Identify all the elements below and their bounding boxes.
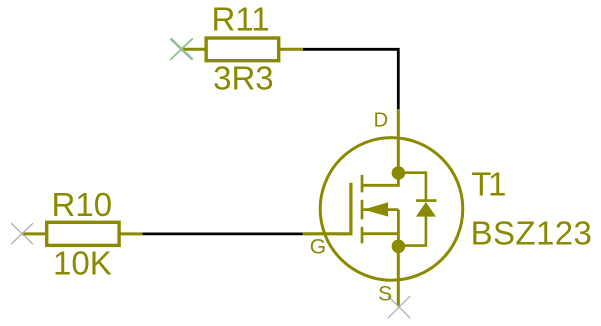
- svg-text:T1: T1: [471, 166, 505, 203]
- resistor R10: [22, 222, 143, 245]
- T1 bulk arrow: [363, 208, 398, 211]
- wire R10 to T1 gate: [143, 232, 303, 235]
- unconnected pin marker R10 pin 1: [11, 223, 33, 244]
- unconnected pin marker T1 source: [388, 296, 411, 319]
- T1 channel segments: [361, 175, 364, 243]
- svg-text:10K: 10K: [53, 245, 112, 282]
- body diode of T1: [398, 173, 436, 246]
- wire R11 to T1 drain: [303, 49, 398, 109]
- svg-text:R11: R11: [212, 1, 270, 38]
- junction dot source: [392, 240, 406, 254]
- svg-text:D: D: [374, 109, 388, 131]
- T1 bulk to source line: [397, 210, 400, 247]
- transistor T1 body circle: [320, 138, 463, 281]
- svg-text:S: S: [378, 283, 392, 306]
- T1 drain internal lead: [362, 173, 398, 185]
- junction dot drain: [392, 166, 406, 180]
- unconnected pin marker R11 pin 1: [170, 38, 193, 60]
- svg-text:BSZ123: BSZ123: [471, 215, 593, 252]
- T1 source internal lead: [362, 232, 398, 235]
- svg-text:3R3: 3R3: [213, 60, 274, 97]
- resistor R11: [182, 38, 303, 61]
- svg-text:G: G: [310, 235, 326, 258]
- T1 drain pin lead: [397, 109, 400, 173]
- T1 gate pin lead: [303, 183, 351, 234]
- svg-text:R10: R10: [52, 186, 113, 223]
- T1 source pin lead: [397, 246, 400, 306]
